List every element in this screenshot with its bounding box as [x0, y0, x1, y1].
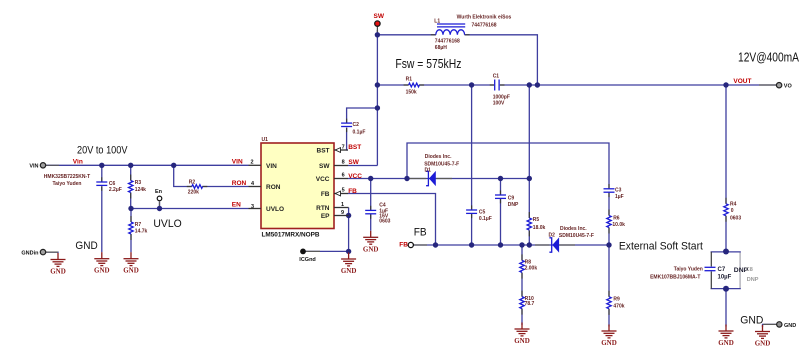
junction VIN-C6	[99, 163, 104, 168]
svg-text:L1: L1	[434, 18, 440, 24]
node En	[155, 189, 163, 201]
svg-text:C1: C1	[493, 74, 500, 80]
junction SW-L1	[375, 32, 380, 37]
junction ICGnd	[346, 249, 351, 254]
svg-text:C5: C5	[479, 209, 486, 215]
capacitor C7	[705, 267, 732, 281]
svg-text:HMK325B7225KN-T: HMK325B7225KN-T	[44, 174, 90, 180]
junction EP	[346, 213, 351, 218]
capacitor C4	[365, 202, 390, 224]
svg-text:2: 2	[251, 160, 254, 166]
svg-text:ICGnd: ICGnd	[299, 257, 316, 263]
wire C4 branch	[370, 179, 372, 231]
svg-text:BST: BST	[348, 144, 361, 151]
capacitor C2	[341, 122, 365, 135]
svg-text:68µH: 68µH	[435, 45, 447, 51]
svg-text:R3: R3	[135, 180, 142, 186]
terminal FB	[399, 242, 413, 249]
svg-text:R6: R6	[613, 216, 620, 222]
resistor R8	[520, 260, 538, 273]
part number C7	[650, 267, 703, 281]
svg-text:C8: C8	[746, 267, 753, 273]
junction FB-R8	[519, 242, 524, 247]
svg-text:14.7k: 14.7k	[135, 228, 148, 234]
diode D1	[425, 168, 436, 187]
svg-text:0603: 0603	[730, 215, 741, 221]
svg-text:VCC: VCC	[316, 176, 330, 183]
wire SW vertical	[376, 26, 378, 165]
terminal GNDin	[21, 249, 45, 256]
svg-text:0603: 0603	[379, 219, 390, 225]
wire C7 box to gnd	[725, 289, 727, 327]
wire FB pin route	[348, 194, 436, 246]
wire C7 C8 box	[711, 252, 741, 289]
wire VOUT column R4	[725, 85, 727, 251]
capacitor C8 labels	[746, 267, 759, 283]
svg-text:78.7: 78.7	[525, 301, 535, 307]
ground R7	[123, 252, 139, 275]
junction VCC-D1	[404, 176, 409, 181]
svg-text:VO: VO	[784, 84, 793, 90]
wire C2 branch	[347, 108, 378, 150]
svg-text:U1: U1	[262, 137, 269, 143]
resistor R6	[607, 216, 625, 229]
svg-text:18.0k: 18.0k	[533, 225, 546, 231]
terminal VIN	[29, 163, 45, 170]
svg-text:Diodes Inc.: Diodes Inc.	[425, 154, 452, 160]
svg-text:Fsw = 575kHz: Fsw = 575kHz	[395, 56, 461, 71]
svg-text:744776168: 744776168	[471, 23, 496, 29]
svg-text:SW: SW	[319, 163, 330, 170]
svg-text:SDM10U45-7-F: SDM10U45-7-F	[559, 233, 594, 239]
svg-text:220k: 220k	[188, 190, 199, 196]
junction C1-R5	[527, 82, 532, 87]
annotation External Soft Start	[619, 240, 703, 252]
terminal SW	[374, 13, 385, 26]
svg-text:GND: GND	[740, 315, 763, 327]
svg-text:10µF: 10µF	[718, 275, 732, 281]
node Vin label	[73, 158, 83, 165]
ground C7	[718, 325, 734, 348]
svg-text:SDM10U45-7-F: SDM10U45-7-F	[424, 162, 459, 168]
svg-text:VIN: VIN	[266, 163, 277, 170]
svg-text:UVLO: UVLO	[266, 206, 284, 213]
svg-text:C6: C6	[109, 181, 116, 187]
ground R10	[514, 323, 530, 346]
op-amp U1 LM5017 body	[261, 137, 334, 238]
svg-text:RON: RON	[266, 184, 281, 191]
capacitor C5	[466, 209, 492, 222]
wire R5 branch	[528, 85, 530, 245]
svg-text:En: En	[155, 189, 163, 195]
part number C6	[44, 174, 90, 187]
ground R9	[601, 325, 617, 348]
annotation GND left	[75, 240, 97, 252]
svg-text:SW: SW	[348, 159, 359, 166]
svg-text:R1: R1	[406, 77, 413, 83]
svg-text:7: 7	[342, 144, 345, 150]
wire C9 branch	[500, 179, 502, 246]
svg-text:R9: R9	[613, 296, 620, 302]
svg-text:C9: C9	[508, 196, 515, 202]
svg-text:BST: BST	[317, 148, 330, 155]
svg-text:DNP: DNP	[747, 277, 759, 283]
junction FB-pin	[433, 242, 438, 247]
wire L1 row	[377, 35, 537, 85]
svg-text:1000pF: 1000pF	[493, 94, 510, 100]
resistor R9	[607, 296, 625, 309]
annotation UVLO	[153, 218, 182, 230]
wire R3-R7 branch	[130, 165, 132, 252]
svg-text:0.1µF: 0.1µF	[353, 129, 366, 135]
resistor R1	[406, 77, 420, 96]
wire En stub	[159, 201, 161, 208]
svg-text:100V: 100V	[493, 101, 505, 107]
resistor R4	[724, 201, 742, 221]
svg-text:12V@400mA: 12V@400mA	[738, 49, 799, 64]
wire C5 branch	[471, 85, 473, 245]
pin 7 BST	[317, 144, 362, 155]
junction SW-C2	[375, 105, 380, 110]
wire C6 branch	[101, 165, 103, 252]
pin 8 SW	[319, 159, 360, 170]
svg-text:RTN: RTN	[316, 205, 330, 212]
pin 5 FB	[321, 188, 357, 199]
svg-text:GNDin: GNDin	[21, 250, 39, 256]
svg-text:LM5017MRX/NOPB: LM5017MRX/NOPB	[262, 231, 320, 238]
svg-text:Vin: Vin	[73, 158, 83, 165]
svg-text:R5: R5	[533, 217, 540, 223]
svg-text:C7: C7	[718, 267, 726, 273]
svg-text:D2: D2	[549, 232, 556, 238]
svg-text:SW: SW	[374, 13, 385, 20]
part number D1	[424, 154, 459, 168]
svg-text:D1: D1	[425, 168, 432, 174]
capacitor C6	[96, 181, 121, 193]
svg-text:FB: FB	[348, 188, 357, 195]
wire RON branch	[174, 165, 249, 186]
svg-text:124k: 124k	[135, 187, 146, 193]
svg-text:GND: GND	[784, 323, 796, 329]
svg-text:1: 1	[341, 202, 344, 208]
svg-text:Diodes Inc.: Diodes Inc.	[560, 226, 587, 232]
junction box bottom	[723, 286, 729, 292]
svg-text:6: 6	[342, 173, 345, 179]
annotation Fsw	[395, 56, 461, 71]
svg-text:FB: FB	[414, 226, 427, 238]
svg-text:3: 3	[251, 204, 254, 210]
svg-text:VIN: VIN	[232, 158, 243, 165]
wire GND terminal	[763, 324, 777, 327]
pin 2 VIN	[232, 158, 277, 170]
resistor R10	[520, 296, 535, 308]
svg-text:470k: 470k	[613, 303, 624, 309]
svg-text:FB: FB	[399, 242, 408, 249]
svg-text:VOUT: VOUT	[733, 78, 751, 85]
svg-text:8: 8	[342, 160, 345, 166]
capacitor C3	[604, 187, 624, 200]
svg-text:R7: R7	[135, 222, 142, 228]
part number L1	[457, 14, 512, 28]
junction FB-R5	[527, 242, 532, 247]
wire VCC row	[348, 178, 529, 180]
annotation GND right	[740, 315, 763, 327]
ground EP	[341, 253, 357, 276]
svg-text:EMK107BBJ106MA-T: EMK107BBJ106MA-T	[650, 274, 700, 280]
svg-text:RON: RON	[232, 180, 247, 187]
junction VOUT-R4	[723, 82, 728, 87]
svg-text:744776168: 744776168	[435, 39, 460, 45]
capacitor C1	[493, 74, 510, 107]
inductor L1	[434, 18, 465, 51]
junction EN row	[128, 206, 133, 211]
resistor R3	[129, 180, 147, 193]
node VOUT label	[733, 78, 751, 85]
wire gray pin stubs	[46, 85, 777, 324]
svg-text:External Soft Start: External Soft Start	[619, 240, 703, 252]
svg-text:0.1µF: 0.1µF	[479, 216, 492, 222]
junction VCC-C4	[368, 176, 373, 181]
ground GND terminal	[755, 325, 771, 348]
svg-text:C3: C3	[615, 187, 622, 193]
junction box top	[723, 249, 729, 255]
junction R1-C1	[469, 82, 474, 87]
svg-text:UVLO: UVLO	[153, 218, 182, 230]
wire RTN EP	[348, 208, 350, 252]
svg-text:Taiyo Yuden: Taiyo Yuden	[53, 181, 82, 187]
resistor R2	[188, 179, 203, 195]
svg-text:0: 0	[731, 208, 734, 214]
junction VIN-RON	[171, 163, 176, 168]
capacitor C9	[495, 195, 519, 208]
resistor R5	[527, 217, 545, 231]
svg-text:R2: R2	[189, 179, 196, 185]
junction VIN-R3	[128, 163, 133, 168]
svg-text:Wurth Elektronik eiSos: Wurth Elektronik eiSos	[457, 14, 512, 20]
annotation 20V to 100V	[77, 144, 128, 156]
junction L1-VOUT	[535, 82, 540, 87]
svg-text:VCC: VCC	[348, 173, 362, 180]
svg-text:2.00k: 2.00k	[525, 265, 538, 271]
label DNP C7	[734, 267, 749, 274]
svg-text:GND: GND	[75, 240, 97, 252]
annotation FB	[414, 226, 427, 238]
junction VCC-C9	[498, 176, 503, 181]
svg-text:VIN: VIN	[29, 164, 38, 170]
svg-text:EN: EN	[232, 201, 241, 208]
resistor R7	[129, 222, 148, 234]
junction SW-R1	[375, 82, 380, 87]
pin 4 RON	[232, 180, 281, 191]
svg-text:150k: 150k	[406, 89, 417, 95]
terminal ICGnd	[299, 249, 316, 263]
svg-text:R4: R4	[730, 201, 737, 207]
pin 3 EN	[232, 201, 284, 212]
svg-text:FB: FB	[321, 191, 330, 198]
svg-text:Taiyo Yuden: Taiyo Yuden	[674, 267, 703, 273]
wire R9 branch	[608, 245, 610, 327]
pin 9 EP	[321, 210, 349, 220]
junction soft start	[606, 242, 611, 247]
svg-text:EP: EP	[321, 213, 330, 220]
ground C4	[363, 231, 379, 254]
terminal GND	[777, 322, 797, 329]
annotation 12V@400mA	[738, 49, 799, 64]
svg-text:1µF: 1µF	[615, 194, 624, 200]
wire EN row	[131, 208, 249, 210]
wire top R1 C1 row	[377, 84, 779, 86]
terminal VO	[776, 83, 792, 90]
ground GNDin	[50, 253, 66, 276]
wire GNDin	[44, 251, 58, 254]
svg-text:DNP: DNP	[508, 202, 519, 208]
pin 1 RTN	[316, 202, 348, 212]
wire ICGnd	[306, 250, 349, 251]
junction En node	[157, 206, 162, 211]
junction FB-C9	[498, 242, 503, 247]
pin 6 VCC	[316, 173, 362, 184]
svg-text:9: 9	[341, 210, 344, 216]
wire VCC top route	[407, 143, 609, 245]
junction FB-C5	[469, 242, 474, 247]
wire SW pin row	[348, 165, 377, 167]
svg-text:10.0k: 10.0k	[612, 222, 625, 228]
wire VIN row	[44, 164, 249, 166]
diode D2	[549, 232, 560, 252]
svg-text:C2: C2	[353, 122, 360, 128]
wire FB row	[413, 244, 609, 246]
ground C6	[94, 252, 110, 275]
part number D2	[559, 226, 594, 239]
svg-text:20V to 100V: 20V to 100V	[77, 144, 128, 156]
svg-text:5: 5	[342, 188, 345, 194]
wire R8 R10 branch	[521, 245, 523, 325]
wire component pin stubs	[102, 35, 726, 315]
svg-text:2.2µF: 2.2µF	[109, 187, 122, 193]
junction VCC-R5	[527, 176, 532, 181]
